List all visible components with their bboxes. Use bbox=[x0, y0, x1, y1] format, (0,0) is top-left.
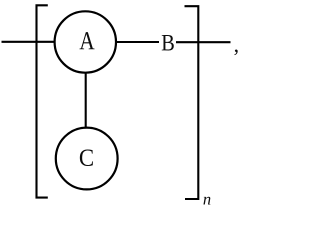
wire: vertical bond from circle A to circle C bbox=[85, 72, 87, 129]
label C bbox=[80, 149, 93, 165]
label B bbox=[162, 35, 174, 50]
wire: bond from circle A to label B bbox=[116, 41, 159, 43]
label A bbox=[80, 32, 95, 49]
comma bbox=[234, 50, 237, 56]
node A circle bbox=[55, 11, 116, 72]
subscript n bbox=[203, 197, 210, 205]
wire: left chain bond entering bracket to circle A bbox=[2, 41, 56, 43]
left bracket bbox=[37, 5, 48, 197]
node C circle bbox=[56, 128, 118, 190]
right bracket bbox=[185, 6, 199, 199]
wire: bond from label B through right bracket bbox=[176, 41, 231, 43]
